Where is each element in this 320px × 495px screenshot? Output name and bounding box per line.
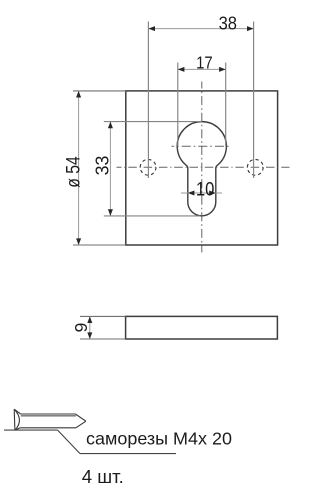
svg-text:саморезы М4х 20: саморезы М4х 20 [86, 428, 232, 448]
screw shaft bottom edge [20, 427, 76, 429]
dimension 9 extension line bottom [80, 338, 126, 340]
dimension 33 extension line top [104, 121, 202, 123]
screw tip bottom [76, 421, 86, 428]
horizontal centerline through cylinder circle [172, 145, 232, 147]
dimension 17 extension line right [225, 63, 227, 147]
dimension 38 line [148, 28, 253, 30]
dimension dia54 extension line top [73, 90, 126, 92]
right screw hole (dashed) [247, 159, 263, 175]
dimension dia54 extension line bottom [73, 244, 126, 246]
dimension 38 arrow left [148, 26, 155, 31]
leader diagonal [58, 430, 80, 454]
dimension 9 line [89, 316, 91, 339]
dimension 33 extension line bottom [104, 215, 200, 217]
dimension 9 arrow top [87, 316, 92, 323]
svg-text:ø 54: ø 54 [63, 156, 84, 188]
screw head back edge [13, 409, 16, 430]
svg-text:10: 10 [196, 180, 215, 201]
screw shaft thread line [21, 415, 76, 417]
dimension 17 arrow right [219, 67, 226, 72]
screw head top shoulder [14, 409, 20, 414]
left screw hole (dashed) [140, 159, 156, 175]
svg-text:9: 9 [71, 323, 91, 333]
dimension 10 arrow left [188, 191, 195, 196]
dimension dia54 arrow top [76, 91, 81, 98]
keyhole cutout (euro cylinder profile) [177, 122, 226, 216]
dimension 10 arrow right [209, 191, 216, 196]
dimension 17 extension line left [177, 63, 179, 147]
dimension 17 line [178, 68, 226, 70]
dimension 33 arrow top [108, 122, 113, 129]
horizontal centerline through screw holes [117, 166, 290, 168]
screw head conical face arc [14, 409, 19, 430]
dimension dia54 line [78, 91, 80, 245]
screw head bottom shoulder [15, 428, 20, 430]
dimension 38 arrow right [247, 26, 254, 31]
dimension 38 extension line left [147, 22, 149, 179]
svg-text:4 шт.: 4 шт. [82, 466, 124, 487]
screw tip top [75, 414, 86, 421]
dimension 9 arrow bottom [87, 332, 92, 339]
leader underline [80, 453, 176, 455]
dimension 38 extension line right [253, 22, 255, 179]
dimension 17 arrow left [178, 67, 185, 72]
svg-text:38: 38 [219, 12, 237, 33]
side view plate rectangle [126, 316, 278, 339]
dimension 10 line [181, 192, 222, 194]
dimension 9 extension line top [80, 315, 126, 317]
dimension 33 arrow bottom [108, 209, 113, 216]
vertical centerline [201, 82, 203, 253]
svg-text:33: 33 [92, 156, 113, 176]
dimension dia54 arrow bottom [76, 238, 81, 245]
dimension 33 line [109, 122, 111, 216]
plate front view outline [126, 91, 278, 245]
leader baseline under screw [4, 429, 58, 431]
screw shaft top edge [21, 413, 76, 415]
svg-text:17: 17 [196, 53, 213, 73]
